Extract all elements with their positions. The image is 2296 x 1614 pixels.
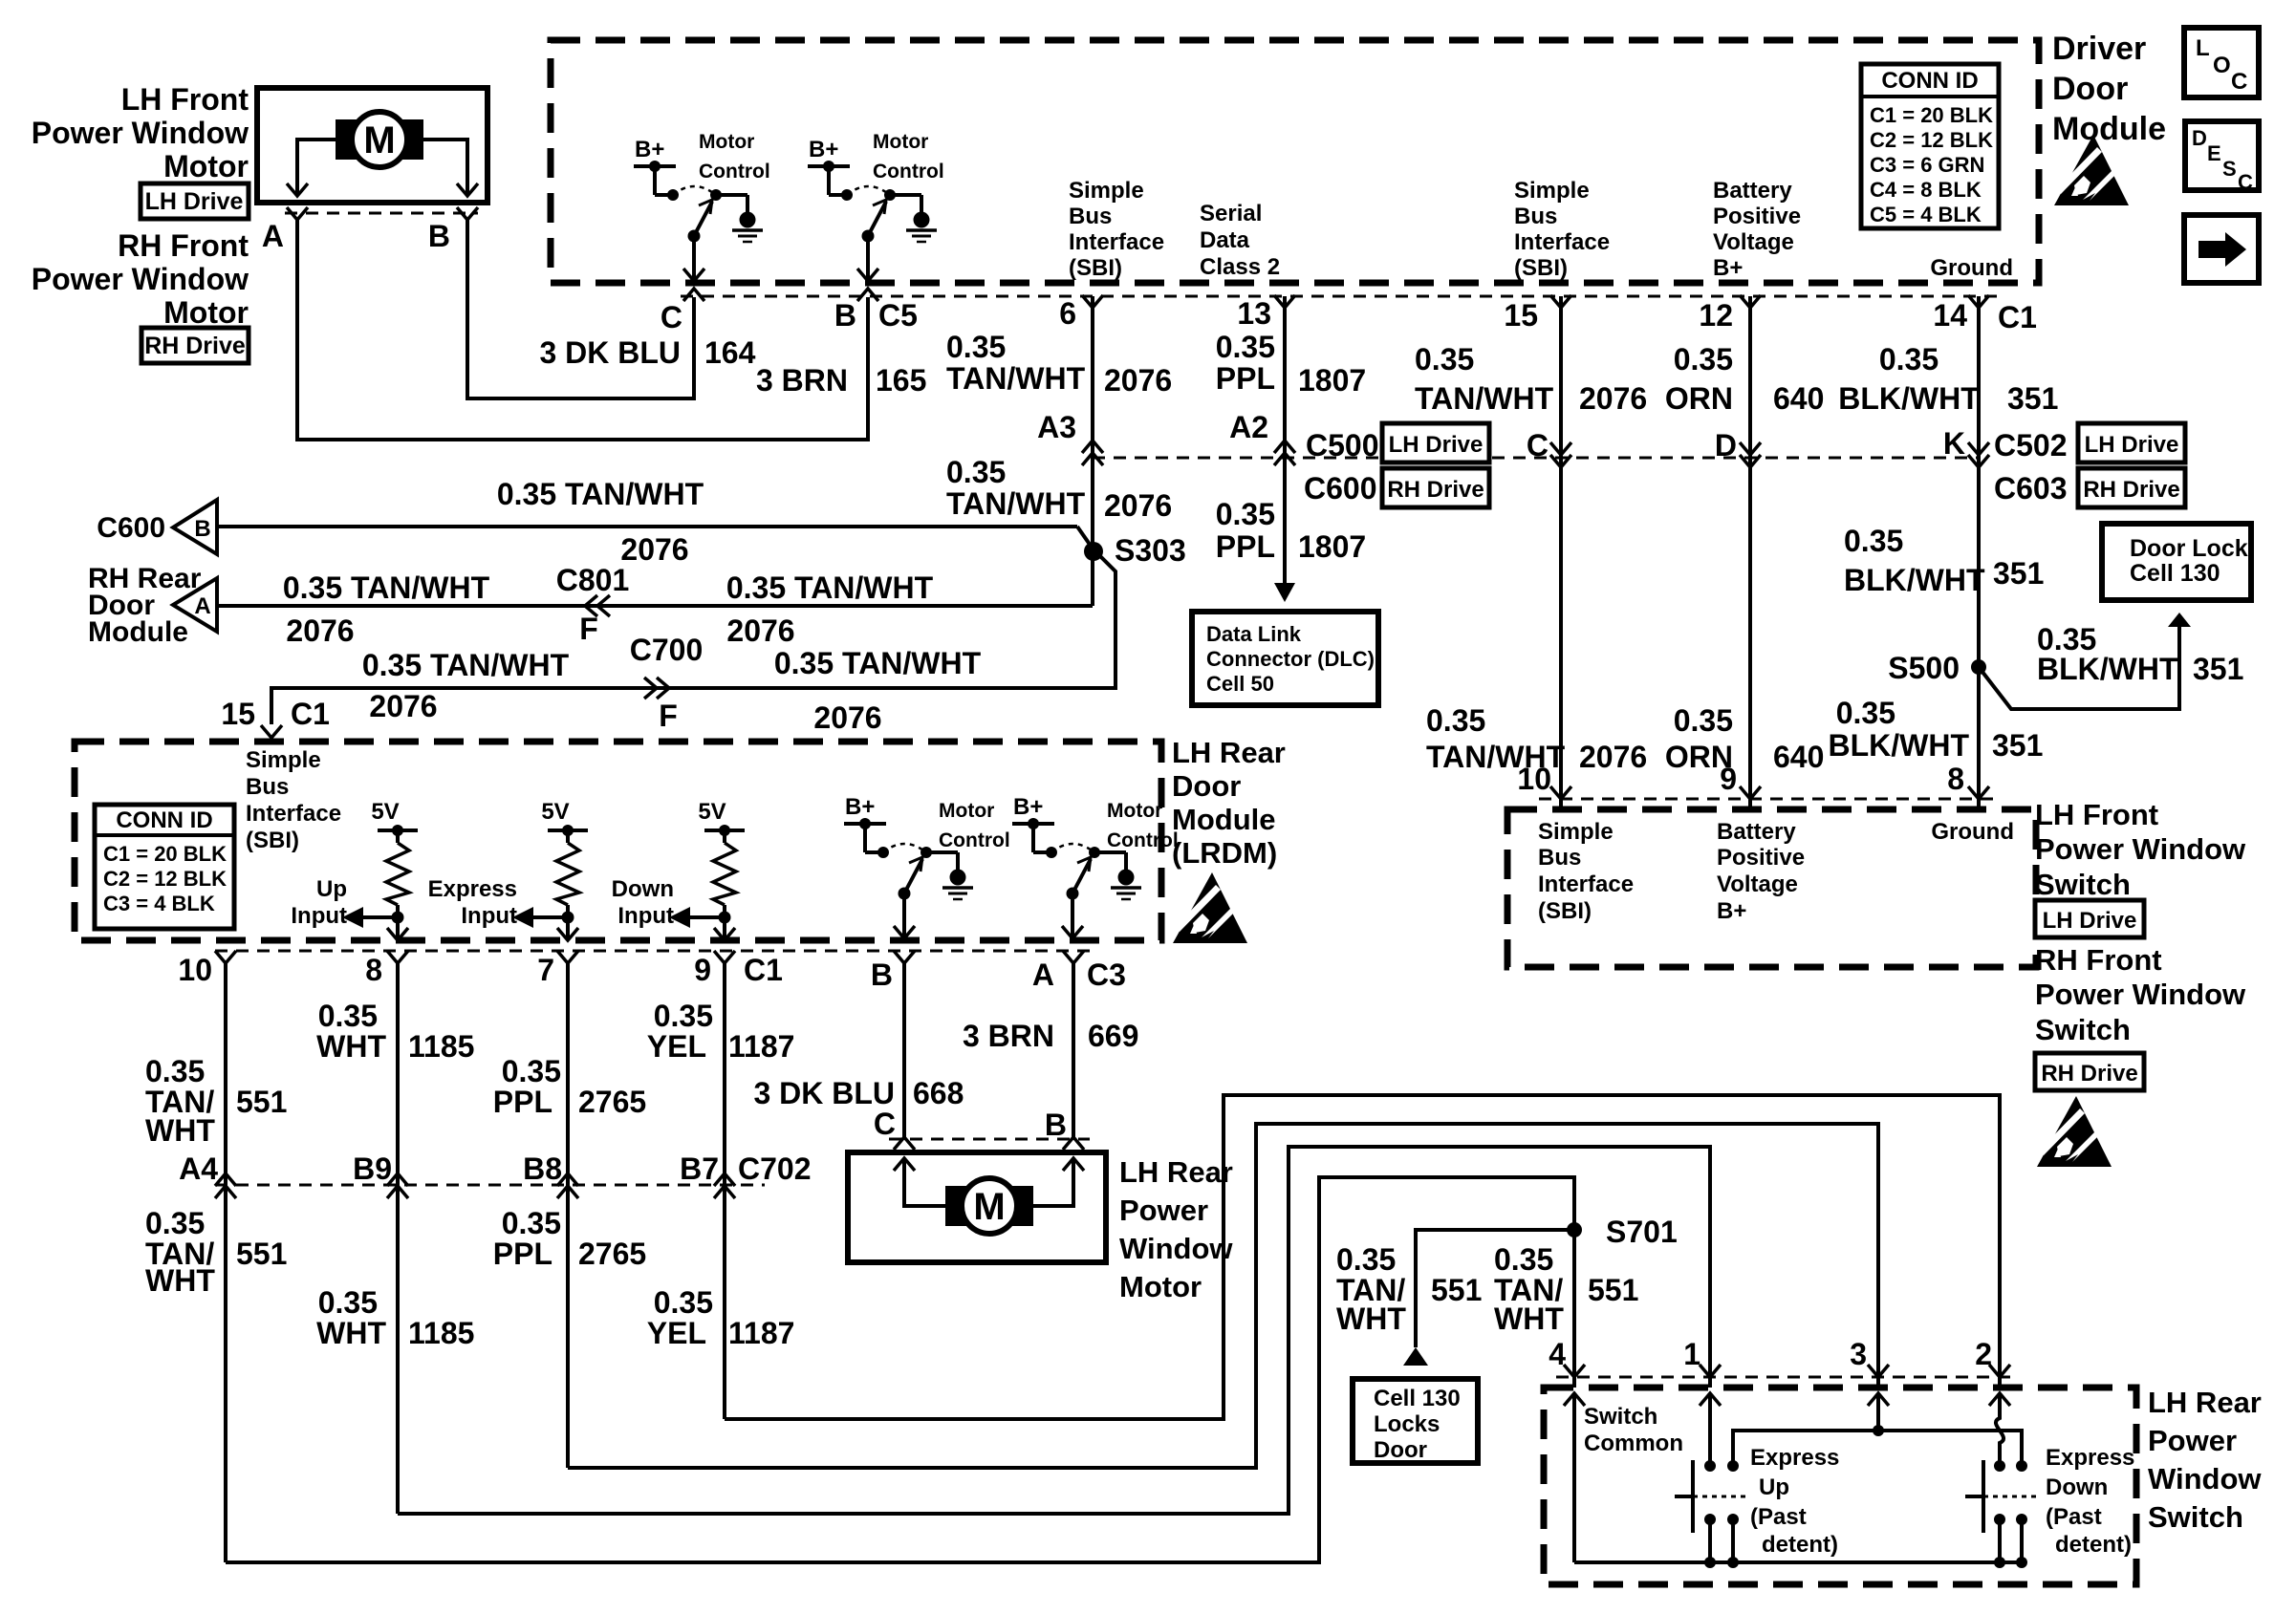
svg-text:WHT: WHT xyxy=(1494,1302,1564,1336)
svg-text:C500: C500 xyxy=(1306,428,1379,463)
svg-text:A3: A3 xyxy=(1037,410,1076,444)
svg-text:LH Drive: LH Drive xyxy=(2085,432,2179,458)
label Serial Data Class 2 pin 13 xyxy=(1200,201,1280,280)
svg-text:LH Drive: LH Drive xyxy=(2043,908,2137,934)
wire label 0.35 TAN/WHT 551 (S701) xyxy=(1494,1242,1564,1336)
svg-text:Cell 130: Cell 130 xyxy=(1374,1386,1461,1411)
svg-text:Door: Door xyxy=(1172,769,1241,803)
connector pin 6 (DDM C1) xyxy=(1082,295,1103,308)
label RH Rear Door Module xyxy=(88,563,202,648)
svg-text:Serial: Serial xyxy=(1200,201,1262,226)
splice S701 xyxy=(1567,1222,1582,1237)
svg-text:1: 1 xyxy=(1683,1337,1700,1371)
svg-text:PPL: PPL xyxy=(1216,361,1275,396)
svg-text:C5: C5 xyxy=(878,298,918,333)
tag box RH Drive (motor) xyxy=(141,328,249,363)
svg-text:Interface: Interface xyxy=(1514,229,1610,255)
svg-text:BLK/WHT: BLK/WHT xyxy=(1828,728,1969,763)
svg-text:351: 351 xyxy=(1993,556,2044,591)
svg-text:2076: 2076 xyxy=(620,532,688,567)
Data Link Connector (DLC) Cell 50 box xyxy=(1192,612,1378,705)
svg-text:551: 551 xyxy=(236,1237,287,1271)
svg-text:B: B xyxy=(1045,1108,1067,1142)
svg-text:S303: S303 xyxy=(1115,533,1186,568)
svg-text:2076: 2076 xyxy=(1579,381,1647,416)
svg-text:C700: C700 xyxy=(630,633,704,667)
wire label 0.35 PPL 2765 (upper) xyxy=(493,1054,561,1119)
label C502 LH Drive xyxy=(1994,423,2185,463)
svg-text:Power Window: Power Window xyxy=(32,116,249,150)
wire 0.35 TAN/WHT 2076 to RH rear door module pin A via C801 xyxy=(217,604,1093,608)
connector pin 15 C1 (LRDM) xyxy=(261,725,282,738)
svg-text:C600: C600 xyxy=(1304,471,1377,506)
svg-text:B+: B+ xyxy=(635,137,664,162)
wire PPL 2765 to switch pin 3 xyxy=(568,1124,1878,1468)
svg-text:A: A xyxy=(194,593,210,619)
svg-text:351: 351 xyxy=(1992,728,2043,763)
svg-text:Input: Input xyxy=(291,903,347,929)
resistor Up Input input pull-up 5V xyxy=(291,799,418,940)
wire 0.35 WHT 1185 pin8 xyxy=(396,963,400,1514)
pin 1 wire to express up switch xyxy=(1700,1393,1721,1406)
svg-text:10: 10 xyxy=(178,953,212,987)
svg-text:LH Front: LH Front xyxy=(121,82,249,117)
svg-text:C5 = 4 BLK: C5 = 4 BLK xyxy=(1870,203,1982,226)
svg-text:0.35: 0.35 xyxy=(1844,524,1903,558)
svg-text:C801: C801 xyxy=(556,563,630,597)
label Battery Positive Voltage B+ pin 12 xyxy=(1713,178,1801,281)
svg-text:5V: 5V xyxy=(541,799,569,825)
svg-text:O: O xyxy=(2213,53,2231,78)
splice S303 xyxy=(1084,542,1103,561)
svg-text:2076: 2076 xyxy=(1579,740,1647,774)
svg-text:Cell 50: Cell 50 xyxy=(1206,672,1274,696)
svg-text:C3 = 6 GRN: C3 = 6 GRN xyxy=(1870,153,1984,177)
svg-text:Simple: Simple xyxy=(246,747,321,773)
connector pin 15 (DDM C1) xyxy=(1550,295,1571,308)
svg-text:LH Drive: LH Drive xyxy=(145,188,244,215)
wire express up to pin 3 and express down xyxy=(1733,1431,2022,1466)
svg-text:C603: C603 xyxy=(1994,471,2068,506)
wire ORN 640 pin12 to pin9 xyxy=(1748,296,1752,809)
connector row C1/C3 of LRDM xyxy=(215,950,1090,953)
wire 0.35 YEL 1187 pin9 xyxy=(723,963,726,1419)
svg-text:551: 551 xyxy=(1588,1273,1638,1307)
svg-text:Bus: Bus xyxy=(1069,204,1112,229)
label LH Rear Door Module (LRDM) xyxy=(1172,736,1286,870)
svg-text:1185: 1185 xyxy=(408,1029,474,1064)
svg-text:(Past: (Past xyxy=(2046,1504,2102,1530)
wire label 0.35 YEL 1187 (lower) xyxy=(647,1285,713,1350)
svg-text:C: C xyxy=(874,1107,896,1141)
svg-text:0.35: 0.35 xyxy=(946,330,1006,364)
wire label 0.35 ORN 640 (above pin 9) xyxy=(1665,703,1733,774)
svg-text:RH Drive: RH Drive xyxy=(1387,477,1484,503)
svg-text:Input: Input xyxy=(617,903,674,929)
svg-text:Class 2: Class 2 xyxy=(1200,254,1280,280)
svg-text:351: 351 xyxy=(2007,381,2058,416)
svg-text:C: C xyxy=(661,300,682,334)
svg-text:2076: 2076 xyxy=(813,700,881,735)
connector row C500/C600 door connectors xyxy=(1093,457,1979,460)
svg-text:PPL: PPL xyxy=(1216,529,1275,564)
svg-text:WHT: WHT xyxy=(145,1113,215,1148)
label LH Front Power Window Motor xyxy=(32,82,249,183)
svg-text:A: A xyxy=(1032,958,1054,992)
svg-text:Motor: Motor xyxy=(1107,800,1162,822)
svg-text:F: F xyxy=(659,699,678,733)
svg-text:B+: B+ xyxy=(1013,794,1043,820)
wire 0.35 TAN/WHT 551 pin10 xyxy=(224,963,227,1562)
svg-text:2765: 2765 xyxy=(578,1237,646,1271)
triangle connector C600 pin B (to RH front door) xyxy=(173,500,217,554)
wire 0.35 TAN/WHT 2076 LRDM pin15 via C700 to S303 xyxy=(271,549,1116,724)
express up switch xyxy=(1675,1460,1746,1568)
svg-text:LH Drive: LH Drive xyxy=(1389,432,1484,458)
svg-text:0.35 TAN/WHT: 0.35 TAN/WHT xyxy=(774,646,982,680)
connector D (pin12 wire) xyxy=(1740,455,1761,467)
svg-text:BLK/WHT: BLK/WHT xyxy=(1844,563,1985,597)
svg-text:S701: S701 xyxy=(1606,1215,1678,1249)
svg-text:Motor: Motor xyxy=(1119,1270,1202,1303)
svg-text:Power Window: Power Window xyxy=(2035,978,2246,1011)
tag box LH Drive (switch) xyxy=(2035,900,2144,937)
tag box LH Drive (motor) xyxy=(141,183,249,219)
svg-text:Data: Data xyxy=(1200,227,1250,253)
svg-text:A: A xyxy=(262,219,284,253)
svg-text:Express: Express xyxy=(2046,1445,2134,1471)
svg-text:3 DK BLU: 3 DK BLU xyxy=(539,335,681,370)
DESC icon box xyxy=(2185,121,2259,194)
svg-text:2076: 2076 xyxy=(726,613,794,648)
svg-text:RH Front: RH Front xyxy=(2035,943,2162,977)
wire label 0.35 YEL 1187 (upper) xyxy=(647,999,713,1064)
svg-text:CONN ID: CONN ID xyxy=(116,807,212,833)
svg-text:B+: B+ xyxy=(1717,898,1746,924)
svg-text:RH Front: RH Front xyxy=(118,228,249,263)
svg-text:8: 8 xyxy=(365,953,382,987)
svg-text:Window: Window xyxy=(1119,1232,1233,1265)
svg-text:E: E xyxy=(2207,141,2221,165)
label C603 RH Drive xyxy=(1994,468,2185,507)
svg-text:0.35: 0.35 xyxy=(502,1206,561,1240)
svg-text:WHT: WHT xyxy=(1336,1302,1406,1336)
svg-text:C3 = 4 BLK: C3 = 4 BLK xyxy=(103,892,215,915)
svg-text:9: 9 xyxy=(1720,762,1737,796)
svg-text:Interface: Interface xyxy=(1069,229,1164,255)
motor M1 (LH front window) xyxy=(336,112,423,167)
svg-text:0.35: 0.35 xyxy=(946,455,1006,489)
svg-text:0.35: 0.35 xyxy=(654,999,713,1033)
label Simple Bus Interface (SBI) LRDM xyxy=(246,747,341,853)
svg-text:Switch: Switch xyxy=(1584,1404,1657,1430)
connector K (pin14 wire) xyxy=(1968,455,1989,467)
svg-text:LH Rear: LH Rear xyxy=(1119,1155,1233,1189)
svg-text:1807: 1807 xyxy=(1298,363,1366,398)
svg-text:0.35: 0.35 xyxy=(1336,1242,1396,1277)
wire label 0.35 TAN/WHT 551 (lower) xyxy=(145,1206,215,1298)
svg-text:S: S xyxy=(2222,157,2237,181)
svg-text:Interface: Interface xyxy=(246,801,341,827)
wire label 0.35 TAN/WHT 551 (upper) xyxy=(145,1054,215,1148)
wire label 0.35 TAN/WHT 2076 (above pin 10) xyxy=(1426,703,1566,774)
svg-text:2076: 2076 xyxy=(1104,488,1172,523)
LH rear power window motor box xyxy=(848,1152,1106,1262)
svg-text:Express: Express xyxy=(1750,1445,1839,1471)
svg-text:Switch: Switch xyxy=(2148,1500,2243,1534)
express down switch xyxy=(1965,1460,2037,1568)
svg-text:PPL: PPL xyxy=(493,1237,552,1271)
svg-text:RH Drive: RH Drive xyxy=(144,333,246,359)
wire motor M2 pin B xyxy=(1017,1160,1073,1206)
ESD symbol (RH front power window switch) xyxy=(2037,1096,2112,1167)
svg-text:C: C xyxy=(1527,428,1549,463)
svg-text:M: M xyxy=(973,1186,1005,1228)
svg-text:YEL: YEL xyxy=(647,1029,706,1064)
LH front power window motor box xyxy=(257,88,487,203)
svg-text:C1 = 20 BLK: C1 = 20 BLK xyxy=(103,842,227,866)
svg-text:0.35: 0.35 xyxy=(1674,342,1733,377)
svg-text:2076: 2076 xyxy=(369,689,437,723)
svg-text:PPL: PPL xyxy=(493,1085,552,1119)
svg-text:M: M xyxy=(363,119,395,161)
svg-text:LH Front: LH Front xyxy=(2035,798,2158,831)
svg-text:C1 = 20 BLK: C1 = 20 BLK xyxy=(1870,103,1993,127)
label LH Rear Power Window Switch xyxy=(2148,1386,2262,1534)
wire TAN/WHT 551 to S701 and switch pin 4 xyxy=(226,1177,1574,1562)
svg-text:Bus: Bus xyxy=(246,774,289,800)
svg-text:3 BRN: 3 BRN xyxy=(963,1019,1054,1053)
svg-text:Battery: Battery xyxy=(1717,819,1796,845)
label Express Up (Past detent) xyxy=(1750,1445,1839,1558)
svg-text:165: 165 xyxy=(876,363,926,398)
svg-text:(SBI): (SBI) xyxy=(1069,255,1122,281)
svg-text:Down: Down xyxy=(612,876,674,902)
svg-text:Bus: Bus xyxy=(1514,204,1557,229)
svg-text:0.35: 0.35 xyxy=(1216,330,1275,364)
svg-text:ORN: ORN xyxy=(1665,381,1733,416)
svg-text:351: 351 xyxy=(2193,652,2243,686)
svg-text:1185: 1185 xyxy=(408,1316,474,1350)
wire label 0.35 TAN/WHT 2076 (below A3) xyxy=(946,455,1086,521)
wire label 0.35 TAN/WHT 551 (cell 130) xyxy=(1336,1242,1406,1336)
svg-text:164: 164 xyxy=(704,335,756,370)
svg-text:12: 12 xyxy=(1699,298,1733,333)
wire label 0.35 PPL 2765 (lower) xyxy=(493,1206,561,1271)
svg-text:Motor: Motor xyxy=(163,149,249,183)
svg-text:Simple: Simple xyxy=(1514,178,1590,204)
motor control switch 2 (DDM) xyxy=(808,131,944,281)
svg-text:F: F xyxy=(579,612,598,646)
label LH Front Power Window Switch xyxy=(2035,798,2246,901)
label Express Down (Past detent) xyxy=(2046,1445,2134,1558)
wire SBI 2076 pin6 to S303 xyxy=(1091,296,1094,606)
label RH Front Power Window Switch xyxy=(2035,943,2246,1046)
label C600 RH Drive xyxy=(1304,468,1489,507)
svg-text:0.35: 0.35 xyxy=(318,999,378,1033)
wire WHT 1185 to switch pin 1 xyxy=(398,1147,1710,1514)
svg-text:(LRDM): (LRDM) xyxy=(1172,836,1277,870)
svg-text:3 BRN: 3 BRN xyxy=(756,363,848,398)
svg-text:B9: B9 xyxy=(353,1151,392,1186)
svg-text:Motor: Motor xyxy=(939,800,994,822)
svg-text:LH Rear: LH Rear xyxy=(1172,736,1286,769)
arrow into door lock box xyxy=(2168,613,2191,627)
svg-text:Module: Module xyxy=(88,616,188,648)
svg-text:10: 10 xyxy=(1517,762,1551,796)
svg-text:Motor: Motor xyxy=(699,131,754,153)
Cell 130 Locks Door box xyxy=(1353,1379,1478,1463)
in-line connector C801 F xyxy=(585,595,597,616)
svg-text:Driver: Driver xyxy=(2052,31,2146,67)
forward arrow icon box xyxy=(2184,215,2259,283)
svg-text:K: K xyxy=(1943,426,1965,461)
svg-text:6: 6 xyxy=(1059,296,1076,331)
label C500 LH Drive xyxy=(1306,423,1489,463)
svg-text:Power: Power xyxy=(2148,1424,2237,1457)
svg-text:WHT: WHT xyxy=(316,1029,386,1064)
svg-text:(Past: (Past xyxy=(1750,1504,1807,1530)
connector pin 13 (DDM C1) xyxy=(1274,295,1295,308)
svg-text:C600: C600 xyxy=(97,512,165,544)
wire label 0.35 TAN/WHT 2076 (pin6) xyxy=(946,330,1086,396)
wire 0.35 TAN/WHT 2076 to C600 pin B xyxy=(217,525,1077,528)
svg-text:C702: C702 xyxy=(738,1151,812,1186)
svg-text:0.35: 0.35 xyxy=(654,1285,713,1320)
svg-text:Control: Control xyxy=(699,161,770,183)
resistor Express Input input pull-up 5V xyxy=(428,799,588,940)
connector B pin C5 (3 BRN 165) xyxy=(857,289,878,301)
svg-text:Positive: Positive xyxy=(1717,845,1805,871)
svg-text:3: 3 xyxy=(1850,1337,1867,1371)
svg-text:BLK/WHT: BLK/WHT xyxy=(1838,381,1980,416)
svg-text:Control: Control xyxy=(939,829,1010,851)
splice S500 xyxy=(1971,659,1986,675)
LH Rear Door Module dashed box xyxy=(75,742,1161,940)
svg-text:Door: Door xyxy=(2052,71,2128,107)
svg-text:Simple: Simple xyxy=(1538,819,1614,845)
svg-text:WHT: WHT xyxy=(145,1263,215,1298)
svg-text:Module: Module xyxy=(1172,803,1276,836)
CONN ID table (LRDM) xyxy=(95,805,234,929)
svg-text:TAN/WHT: TAN/WHT xyxy=(946,486,1086,521)
connector C pin (3 DK BLU 164) xyxy=(683,289,704,301)
svg-text:C502: C502 xyxy=(1994,428,2068,463)
connector row LH front power window switch xyxy=(1539,798,1998,801)
label Simple Bus Interface (SBI) pin 15 xyxy=(1514,178,1610,281)
svg-text:Power Window: Power Window xyxy=(32,262,249,296)
LOC icon box xyxy=(2184,28,2259,97)
svg-text:(SBI): (SBI) xyxy=(246,828,299,853)
svg-text:Cell 130: Cell 130 xyxy=(2130,560,2220,587)
wire serial data PPL 1807 pin13 to DLC xyxy=(1283,296,1287,583)
svg-text:(SBI): (SBI) xyxy=(1538,898,1592,924)
svg-text:Common: Common xyxy=(1584,1431,1683,1456)
svg-text:14: 14 xyxy=(1933,298,1967,333)
svg-text:B: B xyxy=(194,516,210,542)
svg-text:0.35: 0.35 xyxy=(1494,1242,1553,1277)
wire label 0.35 BLK/WHT 351 (S500 to door lock) xyxy=(2037,622,2178,686)
svg-text:2: 2 xyxy=(1975,1337,1992,1371)
svg-text:B: B xyxy=(834,298,856,333)
svg-text:Battery: Battery xyxy=(1713,178,1792,204)
connector C (pin15 wire) xyxy=(1550,455,1571,467)
label Driver Door Module xyxy=(2052,31,2166,147)
svg-text:Input: Input xyxy=(461,903,517,929)
motor control switch 1 (DDM) xyxy=(634,131,770,281)
svg-text:A2: A2 xyxy=(1229,410,1268,444)
svg-text:2765: 2765 xyxy=(578,1085,646,1119)
svg-text:Express: Express xyxy=(428,876,517,902)
wire label 0.35 TAN/WHT 2076 (pin15) xyxy=(1415,342,1554,416)
svg-text:13: 13 xyxy=(1237,296,1271,331)
ESD symbol (LRDM) xyxy=(1173,872,1247,943)
svg-text:Power: Power xyxy=(1119,1194,1208,1227)
wire 3 DK BLU 668 pin B to motor C xyxy=(902,963,906,1137)
svg-text:0.35: 0.35 xyxy=(502,1054,561,1088)
wire label 0.35 ORN 640 (pin12) xyxy=(1665,342,1733,416)
CONN ID table (driver door module) xyxy=(1861,64,1999,228)
svg-text:B8: B8 xyxy=(523,1151,562,1186)
svg-text:669: 669 xyxy=(1088,1019,1138,1053)
svg-text:Voltage: Voltage xyxy=(1713,229,1794,255)
svg-text:Ground: Ground xyxy=(1930,255,2013,281)
pin 3 wire xyxy=(1868,1393,1889,1406)
connector A2 (serial data) xyxy=(1274,441,1295,453)
svg-text:0.35: 0.35 xyxy=(1426,703,1485,738)
switch common bottom wire xyxy=(1574,1560,2022,1564)
svg-text:C4 = 8 BLK: C4 = 8 BLK xyxy=(1870,178,1982,202)
wire 3 BRN 669 pin A to motor B xyxy=(1072,963,1075,1137)
svg-text:Interface: Interface xyxy=(1538,872,1634,897)
switch common wire (pin 4) xyxy=(1564,1393,1585,1406)
connector pin 12 (DDM C1) xyxy=(1740,295,1761,308)
LH rear power window switch dashed box xyxy=(1544,1388,2136,1584)
svg-text:0.35 TAN/WHT: 0.35 TAN/WHT xyxy=(726,570,934,605)
wire pin B to connector C xyxy=(467,220,694,398)
svg-text:C2 = 12 BLK: C2 = 12 BLK xyxy=(1870,128,1993,152)
svg-text:3 DK BLU: 3 DK BLU xyxy=(753,1076,895,1110)
svg-text:detent): detent) xyxy=(2055,1532,2132,1558)
motor M2 (LH rear window) xyxy=(945,1178,1033,1234)
label LH Rear Power Window Motor xyxy=(1119,1155,1233,1303)
svg-text:C3: C3 xyxy=(1087,958,1126,992)
svg-text:551: 551 xyxy=(1431,1273,1482,1307)
svg-text:Door Lock: Door Lock xyxy=(2130,535,2248,562)
svg-text:8: 8 xyxy=(1947,762,1964,796)
wire 0.35 PPL 2765 pin7 xyxy=(566,963,570,1468)
wire S701 to cell 130 locks door xyxy=(1416,1230,1574,1347)
svg-text:2076: 2076 xyxy=(1104,363,1172,398)
wire YEL 1187 to switch pin 2 xyxy=(725,1095,2000,1419)
label RH Front Power Window Motor xyxy=(32,228,249,330)
svg-text:B7: B7 xyxy=(680,1151,719,1186)
svg-text:BLK/WHT: BLK/WHT xyxy=(2037,652,2178,686)
connector row C1 of driver door module xyxy=(681,295,1998,298)
svg-text:15: 15 xyxy=(221,697,255,731)
label Battery Positive Voltage B+ switch xyxy=(1717,819,1805,924)
svg-text:668: 668 xyxy=(913,1076,964,1110)
svg-text:detent): detent) xyxy=(1762,1532,1838,1558)
svg-text:5V: 5V xyxy=(698,799,726,825)
svg-text:WHT: WHT xyxy=(316,1316,386,1350)
wire label 0.35 BLK/WHT 351 (pin14) xyxy=(1838,342,1980,416)
Driver Door Module dashed box xyxy=(551,40,2039,283)
svg-text:Data Link: Data Link xyxy=(1206,622,1302,646)
wire S500 to door lock cell 130 xyxy=(1979,626,2179,709)
svg-text:0.35: 0.35 xyxy=(1216,497,1275,531)
svg-text:Motor: Motor xyxy=(163,295,249,330)
